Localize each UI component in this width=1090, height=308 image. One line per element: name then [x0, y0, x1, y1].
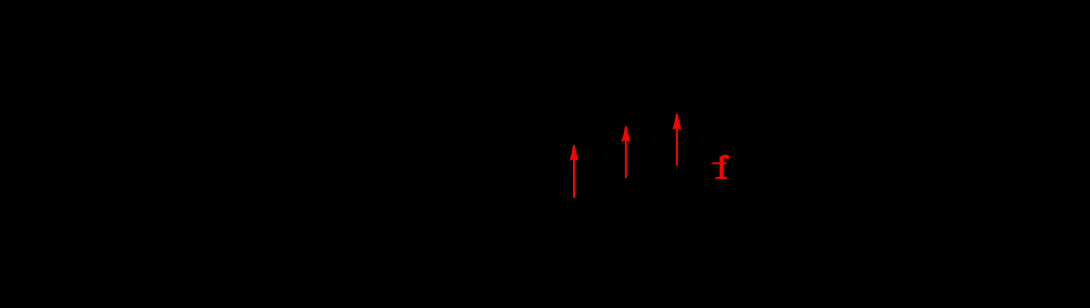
- force arrow F3: [672, 114, 681, 166]
- force arrow F1: [570, 145, 579, 198]
- force arrow F2: [621, 126, 630, 178]
- label f (force per unit length, Computer Modern style glyph): [712, 155, 729, 179]
